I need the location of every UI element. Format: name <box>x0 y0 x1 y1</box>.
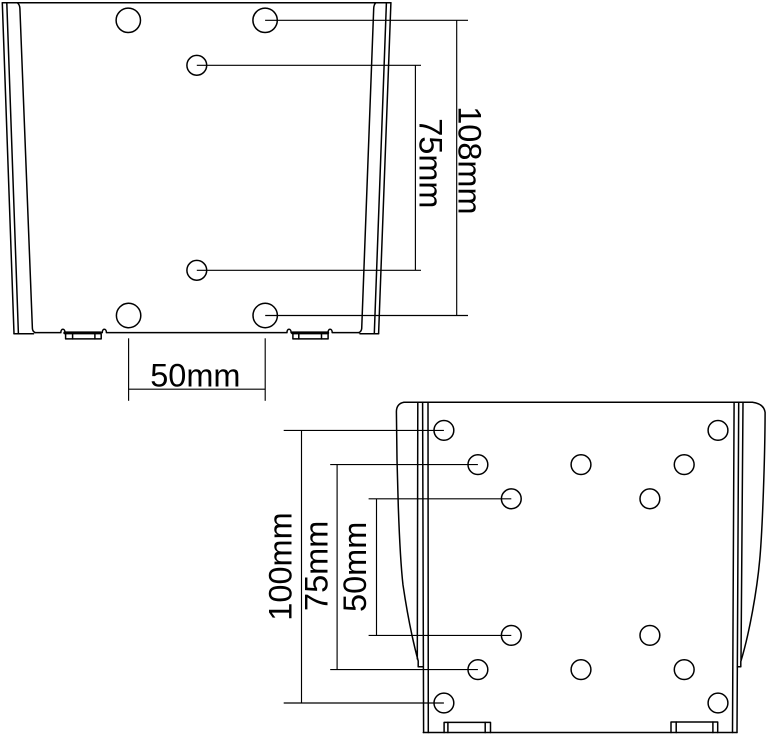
monitor plate top-left corner and left wing outline <box>396 402 423 667</box>
hole top-left 50mm <box>116 8 140 32</box>
right fold line 1 <box>741 402 743 660</box>
right tab inner vertical 2 <box>321 334 323 339</box>
svg-text:108mm: 108mm <box>452 106 488 214</box>
monitor plate bottom edge <box>423 732 737 734</box>
bottom-left tab inner vertical 2 <box>484 722 486 732</box>
extension line right of 50mm <box>264 338 266 401</box>
right flange mid edge <box>374 3 386 334</box>
hole 50mm bottom-left <box>501 626 521 646</box>
monitor plate top edge with rounded corners <box>404 401 752 403</box>
extension line from upper small hole <box>197 64 421 66</box>
left flange mid edge <box>7 3 19 334</box>
bottom-left tab inner vertical 1 <box>447 722 449 732</box>
extension line row1 <box>284 429 444 431</box>
extension line row6 <box>284 702 444 704</box>
left fold line 2 <box>423 402 424 732</box>
bottom-right tab outline <box>671 722 718 733</box>
extension line row4 <box>369 634 512 636</box>
dimension line 100mm <box>301 430 303 703</box>
right fold line 3 <box>733 402 735 732</box>
dimension line 108mm <box>456 20 458 315</box>
hole 50mm top-left <box>501 489 521 509</box>
dimension line 50mm <box>129 388 266 390</box>
hole centre bottom <box>571 660 591 680</box>
left tab body <box>66 334 102 339</box>
svg-text:75mm: 75mm <box>412 118 448 208</box>
hole 100mm top-left <box>434 421 454 441</box>
extension line from bottom-right hole <box>265 315 468 317</box>
extension line from lower small hole <box>197 269 421 271</box>
svg-text:75mm: 75mm <box>299 521 335 611</box>
hole 75mm top-right <box>674 455 694 475</box>
dimension line 50mm lower <box>376 499 378 636</box>
svg-text:50mm: 50mm <box>150 358 240 394</box>
bottom-right tab inner vertical 1 <box>675 722 677 733</box>
left fold line 3 <box>427 402 429 732</box>
bottom-right tab inner vertical 2 <box>712 722 714 733</box>
hole 75mm top-left <box>468 455 488 475</box>
hole 100mm bottom-left <box>434 693 454 713</box>
wall plate top edge <box>2 2 391 4</box>
hole top-right 50mm <box>253 8 277 32</box>
left tab inner vertical 1 <box>72 334 74 339</box>
extension line row3 <box>369 498 512 500</box>
right flange outer edge <box>379 3 391 334</box>
hole 50mm top-right <box>640 489 660 509</box>
monitor plate top-right corner and right wing outline <box>737 402 765 667</box>
hole upper small 75mm <box>187 55 207 75</box>
left tab thick bar <box>65 331 101 334</box>
right flange bottom edge <box>360 333 379 335</box>
hole centre top <box>571 455 591 475</box>
hole 100mm top-right <box>708 421 728 441</box>
svg-text:100mm: 100mm <box>263 512 299 620</box>
hole bottom-left 50mm <box>116 303 140 327</box>
hole 75mm bottom-left <box>468 660 488 680</box>
hole 75mm bottom-right <box>674 660 694 680</box>
dimension line 75mm lower <box>336 465 338 670</box>
extension line from top-right hole <box>265 19 468 21</box>
left tab inner vertical 2 <box>94 334 96 339</box>
right tab inner vertical 1 <box>298 334 300 339</box>
hole 100mm bottom-right <box>708 693 728 713</box>
right flange inner fold <box>359 3 376 333</box>
svg-text:50mm: 50mm <box>337 522 373 612</box>
left fold line 1 <box>416 402 419 659</box>
extension line row2 <box>330 464 478 466</box>
right fold line 2 <box>737 402 739 732</box>
hole 50mm bottom-right <box>640 626 660 646</box>
hole bottom-right 50mm <box>253 303 277 327</box>
extension line row5 <box>330 669 478 671</box>
right tab body <box>293 334 328 339</box>
left flange bottom edge <box>14 333 34 335</box>
hole lower small 75mm <box>187 260 207 280</box>
right tab thick bar <box>293 331 328 334</box>
left flange inner fold <box>17 3 35 333</box>
bottom-left tab outline <box>444 722 490 732</box>
dimension line 75mm <box>414 65 416 270</box>
left flange outer edge <box>2 3 14 334</box>
wall plate bottom edge with relief notches <box>35 329 359 332</box>
extension line left of 50mm <box>128 338 130 401</box>
